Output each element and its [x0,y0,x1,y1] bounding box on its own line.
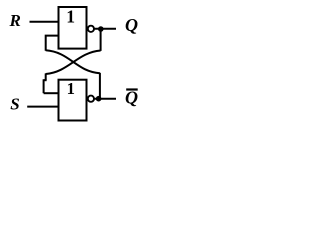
wire: R input to gate U1 [30,21,59,23]
wire: short vertical below diagonal B end [45,73,47,80]
wire: diagonal B (Q junction down-left to U2 input side) [46,51,101,75]
svg-text:1: 1 [66,7,75,27]
junction dot on Q-bar [96,96,102,102]
wire: S input to gate U2 [27,106,58,108]
svg-text:1: 1 [67,79,75,98]
svg-text:R: R [9,11,21,30]
svg-text:S: S [10,94,19,113]
gate U1 (top) body [59,7,87,49]
wire: vertical down to U2 upper input [43,79,45,93]
wire: U2 upper input (feedback from Q) [44,92,58,94]
junction dot on Q [98,26,104,32]
wire: vertical down to Q-bar output junction [99,73,101,99]
wire: diagonal A (U1 input side down to Q-bar junction) [46,50,100,73]
svg-text:Q: Q [125,15,138,35]
wire: Q-bar output [94,98,116,100]
wire: vertical from Q junction down [100,29,102,51]
gate U2 (bottom) body [59,80,87,121]
wire: small jog left at y=80 [44,79,47,81]
wire: Q output [94,28,116,30]
U1 output inversion bubble [88,26,94,32]
U2 output inversion bubble [88,96,94,102]
wire: U1 second input stub (feedback from Q-bar) [46,36,58,51]
overbar of Q-bar [126,88,138,90]
